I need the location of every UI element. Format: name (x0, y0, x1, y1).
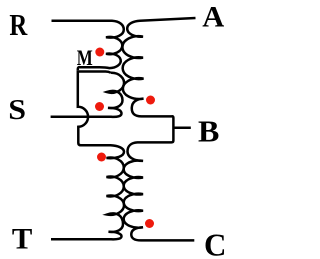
polarity dot 1 (95, 48, 104, 57)
svg-text:R: R (9, 8, 28, 42)
svg-text:B: B (198, 114, 219, 148)
winding W3 secondary A-B, winding W4 secondary B-C, A and C wires (122, 18, 195, 240)
winding W1 upper primary R-M with R wire (52, 21, 124, 71)
polarity dot 4 (97, 153, 106, 162)
svg-text:S: S (8, 94, 26, 126)
svg-text:M: M (77, 46, 93, 71)
polarity dot 3 (146, 96, 155, 105)
svg-text:T: T (12, 222, 32, 255)
polarity dot 2 (95, 102, 104, 111)
winding W1 lower primary M-S with S wire (51, 73, 124, 117)
wire B stub (174, 126, 191, 129)
wire M tap with hop over S wire (78, 72, 111, 146)
svg-text:A: A (202, 1, 224, 33)
winding W2 primary M-T with T wire (51, 145, 124, 239)
polarity dot 5 (145, 219, 154, 228)
svg-text:C: C (204, 228, 226, 259)
